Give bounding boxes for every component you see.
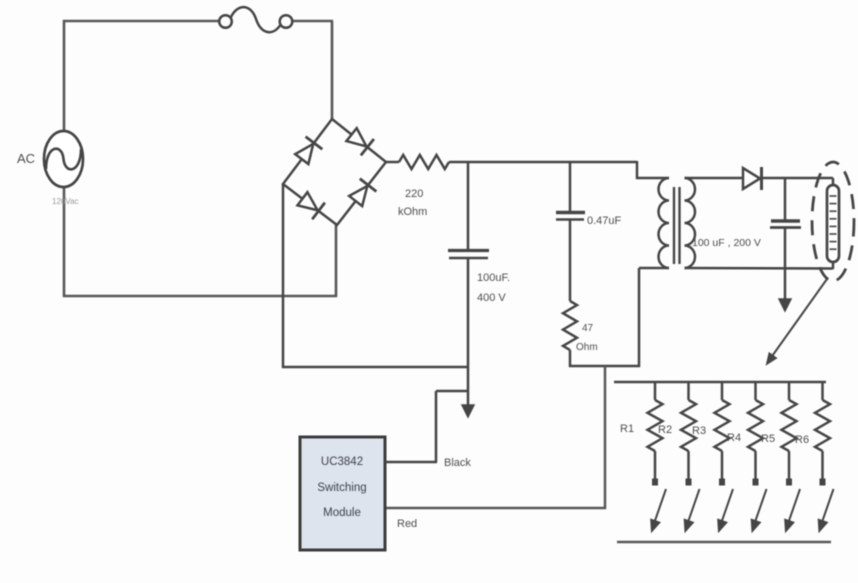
svg-text:0.47uF: 0.47uF	[587, 215, 622, 227]
svg-text:R6: R6	[795, 434, 809, 446]
svg-text:R2: R2	[658, 424, 672, 436]
svg-text:Black: Black	[444, 457, 471, 469]
svg-text:R4: R4	[727, 432, 741, 444]
svg-text:100uF.: 100uF.	[477, 272, 510, 284]
svg-text:100 uF , 200 V: 100 uF , 200 V	[692, 237, 761, 249]
svg-text:Switching: Switching	[317, 482, 366, 494]
svg-text:UC3842: UC3842	[321, 456, 363, 468]
svg-text:47: 47	[582, 323, 594, 334]
svg-text:Module: Module	[323, 507, 361, 519]
svg-text:120Vac: 120Vac	[52, 197, 79, 206]
svg-text:R5: R5	[761, 433, 775, 445]
svg-text:400 V: 400 V	[477, 292, 506, 304]
svg-text:Red: Red	[397, 518, 417, 530]
svg-text:220: 220	[405, 188, 423, 200]
svg-text:Ohm: Ohm	[576, 342, 598, 353]
svg-text:R1: R1	[620, 423, 634, 435]
svg-text:kOhm: kOhm	[398, 206, 427, 218]
svg-text:AC: AC	[17, 151, 35, 166]
svg-text:R3: R3	[692, 425, 706, 437]
